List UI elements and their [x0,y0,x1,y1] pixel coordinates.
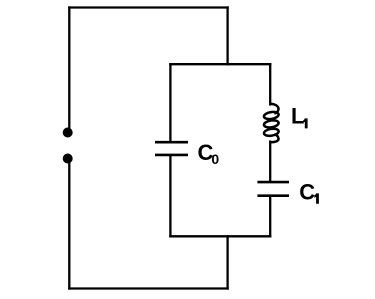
wire: L1 branch upper lead [269,64,271,104]
wire: left lower vertical from bottom terminal down to bottom-left corner [68,162,70,289]
inductor L1 [263,104,279,142]
wire: lead between L1 and C1 [269,142,271,181]
label L1 subscript 1 [303,118,308,128]
wire: resonator top node horizontal (top side of parallel loop) [170,63,270,65]
svg-text:C0: C0 [198,140,220,167]
wire: left upper vertical from top terminal up to top-left corner [68,8,70,130]
capacitor C0 [155,142,188,155]
wire: top horizontal [69,6,227,8]
wire: top stub down to resonator top node [226,8,228,65]
wire: C0 branch lower lead [169,156,171,236]
wire: resonator bottom node horizontal (bottom side of parallel loop) [170,235,270,237]
svg-text:C: C [299,179,315,204]
svg-text:L: L [291,104,304,129]
capacitor C1 [257,182,289,196]
wire: bottom horizontal [69,287,227,289]
terminal node: bottom input terminal dot [63,154,73,164]
wire: C0 branch upper lead [169,64,171,141]
wire: C1 lower lead [269,197,271,236]
terminal node: top input terminal dot [63,128,73,138]
label C1 subscript 1 [314,193,319,203]
wire: bottom stub up to resonator bottom node [226,236,228,288]
